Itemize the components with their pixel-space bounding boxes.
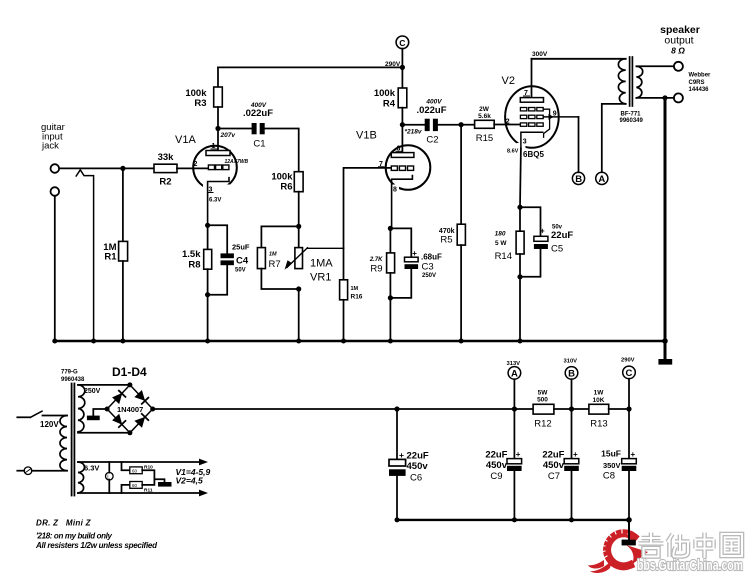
svg-text:12AX7WB: 12AX7WB [225,159,249,165]
tube V2 suppressor internal tie [543,109,549,137]
tube V2 grid rows (g3,g2,g1) [520,108,543,127]
resistor R11 (humdinger) [122,485,130,493]
svg-text:All resisters 1/2w unless spec: All resisters 1/2w unless specified [35,541,158,550]
svg-text:R9: R9 [370,264,382,275]
svg-text:9960438: 9960438 [61,377,85,383]
capacitor C8 [622,459,637,464]
potentiometer VR1 [295,248,303,269]
svg-text:+: + [516,450,521,459]
svg-text:.022uF: .022uF [416,105,446,116]
svg-text:C2: C2 [426,135,438,146]
svg-text:450v: 450v [543,460,565,471]
svg-text:R11: R11 [144,488,153,494]
svg-text:C: C [626,368,633,379]
svg-text:5.6k: 5.6k [478,113,491,120]
tube V1A plate pin 1 [217,129,219,151]
node: C2/R15/R5 junction [459,122,464,127]
tube V2 envelope [505,86,559,148]
node C (top) [396,36,409,49]
svg-text:R8: R8 [188,260,200,271]
label: Webber C9RS 144436 [689,73,712,94]
svg-text:C3: C3 [422,262,434,273]
svg-text:V2=4,5: V2=4,5 [176,476,203,486]
svg-text:C9: C9 [490,471,502,482]
wire: OT secondary to speaker jacks [636,65,673,67]
capacitor C7 [564,459,579,464]
wire: R3 to plate node [217,107,219,129]
tube V1A grid pin 2 [208,165,229,170]
label 1N4007 [117,405,143,414]
wire: heater top run with arrow [78,461,200,463]
wire: C node down to R4 [401,49,403,68]
wire: R3 top lead [217,67,219,87]
node A (bottom) [507,361,521,367]
bridge rectifier D1-D4 [107,385,153,433]
node: V1B cathode junction [388,226,393,231]
wire: heater bottom run with arrow [78,492,200,494]
svg-text:C5: C5 [551,244,563,255]
tube V1B plate pin 6 [401,125,403,153]
wire: VR1 bottom to ground bus [298,289,300,341]
svg-text:bbs.GuitarChina.com: bbs.GuitarChina.com [637,558,743,574]
svg-text:R4: R4 [383,99,396,110]
bridge node dots [105,382,156,435]
wire: R5 to ground bus [460,245,462,341]
svg-text:V1A: V1A [175,134,196,146]
power transformer primary [60,416,67,471]
svg-text:C6: C6 [410,473,422,484]
wire: R9 to ground bus [389,298,391,341]
wire: HV top to bridge [78,384,130,386]
svg-text:R15: R15 [476,133,493,144]
note: 218 build [36,532,113,541]
fuse [17,470,24,472]
tube V1B grid pin 7 [391,166,413,170]
resistor R4 [401,67,403,88]
B+ rail from bridge [153,408,515,410]
svg-text:.68uF: .68uF [421,253,442,262]
capacitor C6 [396,409,398,459]
svg-text:10K: 10K [593,397,605,404]
chassis ground (supply, redrawn over logo) [622,540,636,546]
capacitor C4 [208,225,228,253]
capacitor C2 [402,124,424,126]
svg-text:120V: 120V [40,420,59,429]
svg-text:R5: R5 [440,235,452,246]
svg-text:B: B [575,174,582,185]
wire: junction down to R1 [122,168,124,241]
node: R14/C5 top junction [517,205,522,210]
label: speaker output [660,24,700,56]
svg-text:R1: R1 [104,252,117,263]
svg-text:C8: C8 [603,471,615,482]
svg-text:1N4007: 1N4007 [117,405,143,414]
label *218v [405,129,422,136]
svg-text:1W: 1W [594,390,605,397]
node B (top) [572,172,584,184]
svg-text:2.7K: 2.7K [369,257,383,263]
wire: C1 to R6 top [265,129,299,172]
svg-text:207v: 207v [220,132,236,139]
node: V1A plate junction [215,126,220,131]
wire: plate node to C1 [218,128,252,130]
svg-text:1.5k: 1.5k [182,249,201,260]
watermark: GuitarChina dragon logo [588,526,648,573]
svg-text:+: + [412,249,417,258]
main ground bus [55,340,665,343]
bottom ground bus [397,519,629,521]
diode D3 (left to bottom) [112,414,122,425]
wire: cathode junction to R8 [207,225,209,249]
watermark: chinese characters [639,533,743,559]
svg-text:C1: C1 [253,139,265,150]
svg-text:180: 180 [495,231,506,238]
svg-text:Webber: Webber [689,73,712,79]
wire: V2 plate to OT primary, 300V [532,58,626,60]
svg-text:C4: C4 [236,256,249,267]
svg-text:+: + [573,450,578,459]
diode D1 (left to top) [112,393,122,404]
resistor R3 [214,87,223,107]
bus junction dots [52,338,668,344]
svg-text:779-G: 779-G [61,370,78,376]
svg-text:500: 500 [537,397,548,404]
svg-text:300V: 300V [532,51,548,58]
svg-text:A: A [598,174,605,185]
tube V1B cathode pin 8 [392,176,413,229]
svg-text:*218v: *218v [405,129,422,136]
wire: bus to chassis ground [628,520,630,540]
svg-text:22uF: 22uF [485,450,507,461]
resistor R7 [257,248,265,269]
node: C6 top junction [394,406,399,411]
wire: R6 down to VR1 node [298,192,300,248]
wire: R8 node to ground bus [207,295,209,341]
capacitor C3 [390,228,411,257]
svg-text:5 W: 5 W [495,240,507,247]
resistor R16 [343,248,345,279]
resistor R6 [294,172,303,192]
svg-text:60: 60 [132,483,138,488]
svg-text:R12: R12 [534,419,551,430]
svg-text:6.3V: 6.3V [84,464,99,473]
svg-text:6BQ5: 6BQ5 [523,150,544,159]
svg-text:C: C [399,38,405,48]
tube V1A label 12AX7WB [225,159,249,165]
svg-text:2W: 2W [479,106,490,113]
svg-text:310V: 310V [564,359,578,365]
svg-text:9: 9 [553,111,557,118]
node: A rail junction [512,406,517,411]
resistor R13 [572,408,589,410]
svg-text:1M: 1M [269,252,277,258]
svg-text:C9RS: C9RS [689,80,705,86]
power transformer core [71,384,73,496]
svg-text:100k: 100k [374,88,396,99]
label: guitar input jack text [41,122,65,152]
PT heater winding 6.3V [78,462,85,493]
resistor R5 [457,224,465,245]
capacitor C1 [252,123,265,134]
svg-text:V2: V2 [502,75,515,87]
PT HV secondary 250V [78,385,85,432]
wire: OT primary bottom to node A [602,104,626,172]
node: V1A cathode junction [205,223,210,228]
svg-text:R7: R7 [269,259,281,270]
jack shorting switch contact [76,170,93,341]
resistor R12 [514,408,533,410]
svg-text:250V: 250V [422,273,436,279]
svg-text:BF-771: BF-771 [621,112,642,118]
svg-text:60: 60 [132,469,138,474]
node: B rail junction [569,406,574,411]
svg-text:5W: 5W [538,390,549,397]
tube V2 cathode pin 3 [521,132,543,148]
svg-text:22uF: 22uF [542,450,564,461]
heater center tap ground [154,479,164,482]
svg-text:50V: 50V [235,268,246,274]
wire: V2 cathode chain down [519,149,522,232]
tube V2 notes [507,149,544,159]
node: top rail junction at R4 [400,65,405,70]
tube V1A envelope [193,146,237,190]
jack tip terminal [51,164,60,173]
svg-text:1M: 1M [351,286,359,292]
wire: jack sleeve down to ground bus [54,196,56,341]
node A (top) [596,172,608,184]
node: R8/C4 bottom junction [205,292,210,297]
wire: junction to R7 top [261,226,298,247]
note: DR. Z Mini Z [36,519,92,528]
svg-text:R13: R13 [590,419,607,430]
capacitor C9 [507,459,522,464]
svg-text:D1-D4: D1-D4 [112,365,147,379]
jack sleeve terminal [51,187,60,196]
svg-text:+: + [631,450,636,459]
diode D4 (bottom to right) [134,417,145,428]
pilot lamp [108,462,110,473]
resistor R8 [204,249,212,269]
svg-text:V1B: V1B [356,130,377,142]
node: input junction dot [120,166,125,171]
svg-text:450v: 450v [486,460,508,471]
svg-text:8 Ω: 8 Ω [671,46,685,56]
svg-text:2: 2 [194,161,198,168]
svg-text:DR. Z Mini Z: DR. Z Mini Z [36,519,92,528]
tube V1A heater note 6.3V [209,198,221,204]
resistor R14 [516,231,524,254]
svg-text:R3: R3 [194,98,206,109]
node C (bottom) [621,358,635,364]
node: VR1 bottom junction [296,286,301,291]
wire: R16 to ground bus [343,300,345,341]
svg-text:+: + [399,450,404,460]
node: R14/C5 bottom junction [517,274,522,279]
wire: R5 down from junction [460,125,462,225]
node: R9/C3 bottom junction [388,295,393,300]
wire: R14 to ground bus [519,277,521,341]
svg-text:9960349: 9960349 [620,118,644,124]
svg-text:350V: 350V [603,461,621,470]
wire: R1 to ground bus [122,261,124,341]
wire: V2 screen to node B [578,117,580,172]
label 207v [220,132,236,139]
svg-text:jack: jack [41,141,59,152]
resistor R10 (humdinger) [122,462,130,470]
wire: R7 bottom to VR1 bottom node [261,269,298,289]
svg-text:R2: R2 [159,177,171,188]
svg-text:A: A [511,368,518,379]
svg-text:B: B [568,368,575,379]
power switch [31,411,43,417]
svg-text:R14: R14 [495,251,512,262]
wire: AC line in [17,416,30,418]
svg-text:33k: 33k [158,152,175,163]
label heater voltages [176,467,211,486]
svg-text:2: 2 [506,119,510,126]
svg-text:'218: on my build only: '218: on my build only [36,532,113,541]
speaker jack terminals [674,62,683,71]
node: R6/R7/VR1 top junction [296,224,301,229]
tube V1A cathode pin 3 [208,178,229,226]
tube V2 plate pin 7 [531,59,533,98]
capacitor C5 [520,207,541,236]
resistor R1 [119,241,128,261]
output transformer BF-771 [618,57,642,106]
wire: R8 to lower junction [207,269,209,295]
svg-text:VR1: VR1 [310,272,331,284]
node B (bottom) [564,359,578,365]
svg-text:3: 3 [523,139,527,146]
wire: VR1 wiper rail up to V1B grid [344,168,391,248]
wire: HV bottom to bridge [78,432,130,434]
svg-text:1MA: 1MA [310,258,333,270]
resistor R9 [389,228,391,253]
svg-text:6.3V: 6.3V [209,198,221,204]
svg-text:450v: 450v [407,461,429,472]
wire: top B+ rail from R3 to R4 node [218,66,402,68]
tube V2 pin 9 screen lead [543,116,578,118]
tube V2 pin 2 label [506,119,510,126]
svg-text:R6: R6 [280,182,292,193]
tube V1B envelope [386,145,431,190]
svg-text:8: 8 [393,187,397,194]
resistor R15 [461,124,475,126]
resistor R2 [154,164,177,172]
svg-text:144436: 144436 [689,87,710,93]
svg-text:R16: R16 [351,294,363,301]
svg-text:C7: C7 [548,471,560,482]
node: C rail junction [626,406,631,411]
wire: speaker ground drop (thick) [664,98,667,359]
svg-text:22uF: 22uF [551,230,573,241]
bridge negative to chassis ground [93,409,107,416]
svg-text:22uF: 22uF [407,451,429,462]
node: speaker ground junction [663,95,668,100]
svg-text:8.6V: 8.6V [507,149,519,155]
svg-text:15uF: 15uF [601,449,621,459]
svg-text:+: + [540,227,545,236]
label: PT part number [61,370,85,383]
svg-text:.022uF: .022uF [243,108,273,119]
svg-text:250V: 250V [84,388,101,395]
svg-text:290V: 290V [621,358,635,364]
node: V1B plate junction [400,122,405,127]
wire: jack tip to R2 [59,167,154,169]
label D1-D4 [112,365,147,379]
svg-text:25uF: 25uF [232,243,250,252]
chassis ground (speaker) [658,359,672,365]
chassis ground (supply) [622,540,636,546]
diode D2 (top to right) [134,390,145,401]
svg-text:290V: 290V [385,61,401,68]
wire: R2 to V1A grid [177,167,208,169]
note: resistor wattage [35,541,158,550]
